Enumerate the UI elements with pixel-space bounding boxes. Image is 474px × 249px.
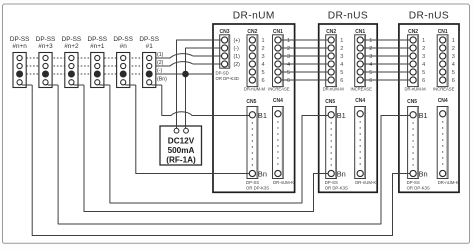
svg-text:(-): (-)	[157, 68, 162, 74]
wire stub from #n+3 pin (Bn)	[47, 83, 58, 86]
svg-text:5: 5	[369, 70, 372, 76]
svg-text:(-): (-)	[234, 46, 239, 52]
wire #n+1 to 2nd unit CN5 B1	[110, 85, 331, 203]
pins of DP-SS #n+2	[69, 55, 74, 60]
wire #n+2 to 2nd unit CN5 Bn	[84, 85, 331, 212]
pins of CN4 U1	[275, 111, 281, 117]
svg-text:6: 6	[369, 78, 372, 84]
pins of CN4 U2	[357, 111, 363, 117]
wire dashed bus row (1)	[20, 57, 150, 59]
svg-text:4: 4	[452, 62, 455, 68]
svg-text:4: 4	[340, 62, 343, 68]
wire U2 CN1 pin 6 to U3 CN2 pin 6	[360, 79, 413, 81]
wire U1 CN1 pin 6 to U2 CN2 pin 6	[278, 79, 331, 81]
svg-text:#n+3: #n+3	[38, 43, 53, 50]
wire U2 CN1 pin 5 to U3 CN2 pin 5	[360, 71, 413, 73]
pins of DP-SS #n+1	[95, 55, 100, 60]
svg-text:#1: #1	[146, 43, 154, 50]
svg-text:CN2: CN2	[326, 29, 336, 35]
wire dashed bus row (-)	[20, 73, 150, 75]
svg-text:B1: B1	[337, 111, 346, 120]
svg-text:CN5: CN5	[407, 99, 417, 105]
svg-text:DR-nUM: DR-nUM	[233, 11, 275, 22]
svg-text:DC12V: DC12V	[168, 137, 195, 146]
svg-text:CN1: CN1	[438, 29, 448, 35]
svg-text:CN3: CN3	[219, 29, 229, 35]
svg-text:CN1: CN1	[273, 29, 283, 35]
svg-text:CN4: CN4	[273, 98, 283, 104]
node junction (-) bus to supply minus	[183, 71, 189, 77]
svg-text:CN2: CN2	[247, 29, 257, 35]
svg-text:5: 5	[422, 70, 425, 76]
svg-text:500mA: 500mA	[168, 146, 195, 155]
svg-text:2: 2	[369, 46, 372, 52]
svg-text:#n+n: #n+n	[12, 43, 27, 50]
svg-text:INCREASE: INCREASE	[350, 87, 372, 92]
svg-text:DR-nUM-K: DR-nUM-K	[273, 180, 294, 185]
svg-text:3: 3	[340, 54, 343, 60]
pins of CN3 U1	[222, 37, 228, 43]
svg-text:(2): (2)	[234, 62, 241, 68]
svg-text:2: 2	[287, 46, 290, 52]
svg-text:OR DP-K3S: OR DP-K3S	[246, 185, 269, 190]
svg-text:5: 5	[452, 70, 455, 76]
svg-text:6: 6	[287, 78, 290, 84]
svg-text:CN5: CN5	[325, 99, 335, 105]
svg-text:(1): (1)	[157, 52, 164, 58]
wire CN3 (-) to DC supply	[186, 48, 225, 130]
svg-text:OR DP-K3D: OR DP-K3D	[216, 76, 239, 81]
svg-text:(+): (+)	[234, 38, 241, 44]
pins of CN2 U2	[328, 37, 334, 43]
wire stub from #n+2 pin (Bn)	[73, 83, 84, 86]
svg-text:6: 6	[340, 78, 343, 84]
svg-text:INCREASE: INCREASE	[268, 87, 290, 92]
wire (-) bus to DR-nUM edge	[156, 73, 213, 75]
pins of CN5 U1	[249, 112, 255, 118]
node (-) junction pin of #n+n	[17, 71, 23, 77]
svg-text:Bn: Bn	[337, 170, 346, 179]
svg-text:6: 6	[452, 78, 455, 84]
wire #1 to DR-nUM CN5 B1 (hops power lines)	[162, 85, 250, 116]
svg-text:1: 1	[422, 38, 425, 44]
svg-text:2: 2	[340, 46, 343, 52]
svg-text:#n: #n	[120, 43, 128, 50]
wire DP-SS (2) to CN3 (2)	[156, 62, 225, 66]
svg-text:6: 6	[262, 78, 265, 84]
svg-text:DR-nUM-M: DR-nUM-M	[244, 87, 266, 92]
svg-text:2: 2	[452, 46, 455, 52]
wire U2 CN1 pin 2 to U3 CN2 pin 2	[360, 47, 413, 49]
wire U1 CN1 pin 4 to U2 CN2 pin 4	[278, 63, 331, 65]
svg-text:DR-nUS: DR-nUS	[409, 11, 449, 22]
terminal + of supply	[174, 128, 179, 133]
svg-text:4: 4	[422, 62, 425, 68]
svg-text:B1: B1	[419, 111, 428, 120]
wire U1 CN1 pin 2 to U2 CN2 pin 2	[278, 47, 331, 49]
svg-text:4: 4	[369, 62, 372, 68]
svg-text:(2): (2)	[157, 60, 164, 66]
svg-text:1: 1	[262, 38, 265, 44]
svg-text:#n+1: #n+1	[90, 43, 105, 50]
node (-) junction pin of #n+2	[68, 71, 74, 77]
svg-text:2: 2	[262, 46, 265, 52]
svg-text:INCREASE: INCREASE	[433, 87, 455, 92]
pins of CN5 U3	[410, 112, 416, 118]
svg-text:4: 4	[262, 62, 265, 68]
svg-text:DR-nUS: DR-nUS	[328, 11, 368, 22]
node (-) junction pin of #1	[146, 71, 152, 77]
wire stub from #n+1 pin (Bn)	[99, 83, 110, 86]
pins of CN1 U1	[275, 37, 281, 43]
svg-text:(RF-1A): (RF-1A)	[166, 155, 196, 164]
svg-text:DR-nUM-M: DR-nUM-M	[405, 87, 427, 92]
svg-text:4: 4	[287, 62, 290, 68]
svg-text:3: 3	[452, 54, 455, 60]
pins of DP-SS #n+3	[43, 55, 48, 60]
svg-text:6: 6	[422, 78, 425, 84]
pins of CN1 U2	[357, 37, 363, 43]
terminal - of supply	[184, 128, 189, 133]
wire U2 CN1 pin 4 to U3 CN2 pin 4	[360, 63, 413, 65]
svg-text:Bn: Bn	[419, 170, 428, 179]
svg-text:1: 1	[340, 38, 343, 44]
svg-text:CN4: CN4	[438, 98, 448, 104]
svg-text:5: 5	[262, 70, 265, 76]
svg-text:1: 1	[452, 38, 455, 44]
svg-text:1: 1	[369, 38, 372, 44]
power supply DC12V 500mA (RF-1A)	[160, 126, 202, 165]
wire #n to DR-nUM CN5 Bn	[136, 85, 250, 174]
wire dashed bus row (2)	[20, 65, 150, 67]
svg-text:CN5: CN5	[246, 99, 256, 105]
wire U2 CN1 pin 3 to U3 CN2 pin 3	[360, 55, 413, 57]
svg-text:B1: B1	[258, 111, 267, 120]
svg-text:1: 1	[287, 38, 290, 44]
svg-text:3: 3	[287, 54, 290, 60]
pins of CN5 U2	[328, 112, 334, 118]
svg-text:(1): (1)	[234, 54, 241, 60]
wire U1 CN1 pin 3 to U2 CN2 pin 3	[278, 55, 331, 57]
wire #n+n to 3rd unit CN5 Bn	[32, 85, 413, 236]
pins of CN2 U3	[410, 37, 416, 43]
svg-text:3: 3	[262, 54, 265, 60]
svg-text:Bn: Bn	[258, 170, 267, 179]
wire U2 CN1 pin 1 to U3 CN2 pin 1	[360, 39, 413, 41]
wire U1 CN1 pin 1 to U2 CN2 pin 1	[278, 39, 331, 41]
wire stub from #n pin (Bn)	[125, 83, 136, 86]
pins of CN1 U3	[440, 37, 446, 43]
node (-) junction pin of #n+3	[42, 71, 48, 77]
node (-) junction pin of #n	[120, 71, 126, 77]
wire #n+3 to 3rd unit CN5 B1	[58, 85, 413, 224]
svg-text:5: 5	[287, 70, 290, 76]
svg-text:(Bn): (Bn)	[157, 77, 167, 83]
svg-text:CN4: CN4	[355, 98, 365, 104]
wire DP-SS (1) to CN3 (1)	[156, 54, 225, 58]
wire stub from #1 pin (Bn)	[151, 83, 162, 86]
svg-text:DR-nUM-K: DR-nUM-K	[355, 180, 376, 185]
svg-text:3: 3	[369, 54, 372, 60]
svg-text:DR-nUM-M: DR-nUM-M	[323, 87, 345, 92]
pins of DP-SS #n	[121, 55, 126, 60]
svg-text:5: 5	[340, 70, 343, 76]
pins of CN4 U3	[440, 111, 446, 117]
svg-text:CN2: CN2	[408, 29, 418, 35]
wire CN3 (+) to DC supply	[177, 40, 225, 130]
wire stub from #n+n pin (Bn)	[21, 83, 32, 86]
wire U1 CN1 pin 5 to U2 CN2 pin 5	[278, 71, 331, 73]
pins of DP-SS #n+n	[17, 55, 22, 60]
pins of CN2 U1	[249, 37, 255, 43]
pins of DP-SS #1	[147, 55, 152, 60]
svg-text:CN1: CN1	[355, 29, 365, 35]
node (-) junction pin of #n+1	[94, 71, 100, 77]
svg-text:2: 2	[422, 46, 425, 52]
svg-text:OR DP-K3S: OR DP-K3S	[325, 185, 348, 190]
svg-text:#n+2: #n+2	[64, 43, 79, 50]
svg-text:DR-nUM-K: DR-nUM-K	[438, 180, 459, 185]
svg-text:OR DP-K3S: OR DP-K3S	[407, 185, 430, 190]
svg-text:3: 3	[422, 54, 425, 60]
